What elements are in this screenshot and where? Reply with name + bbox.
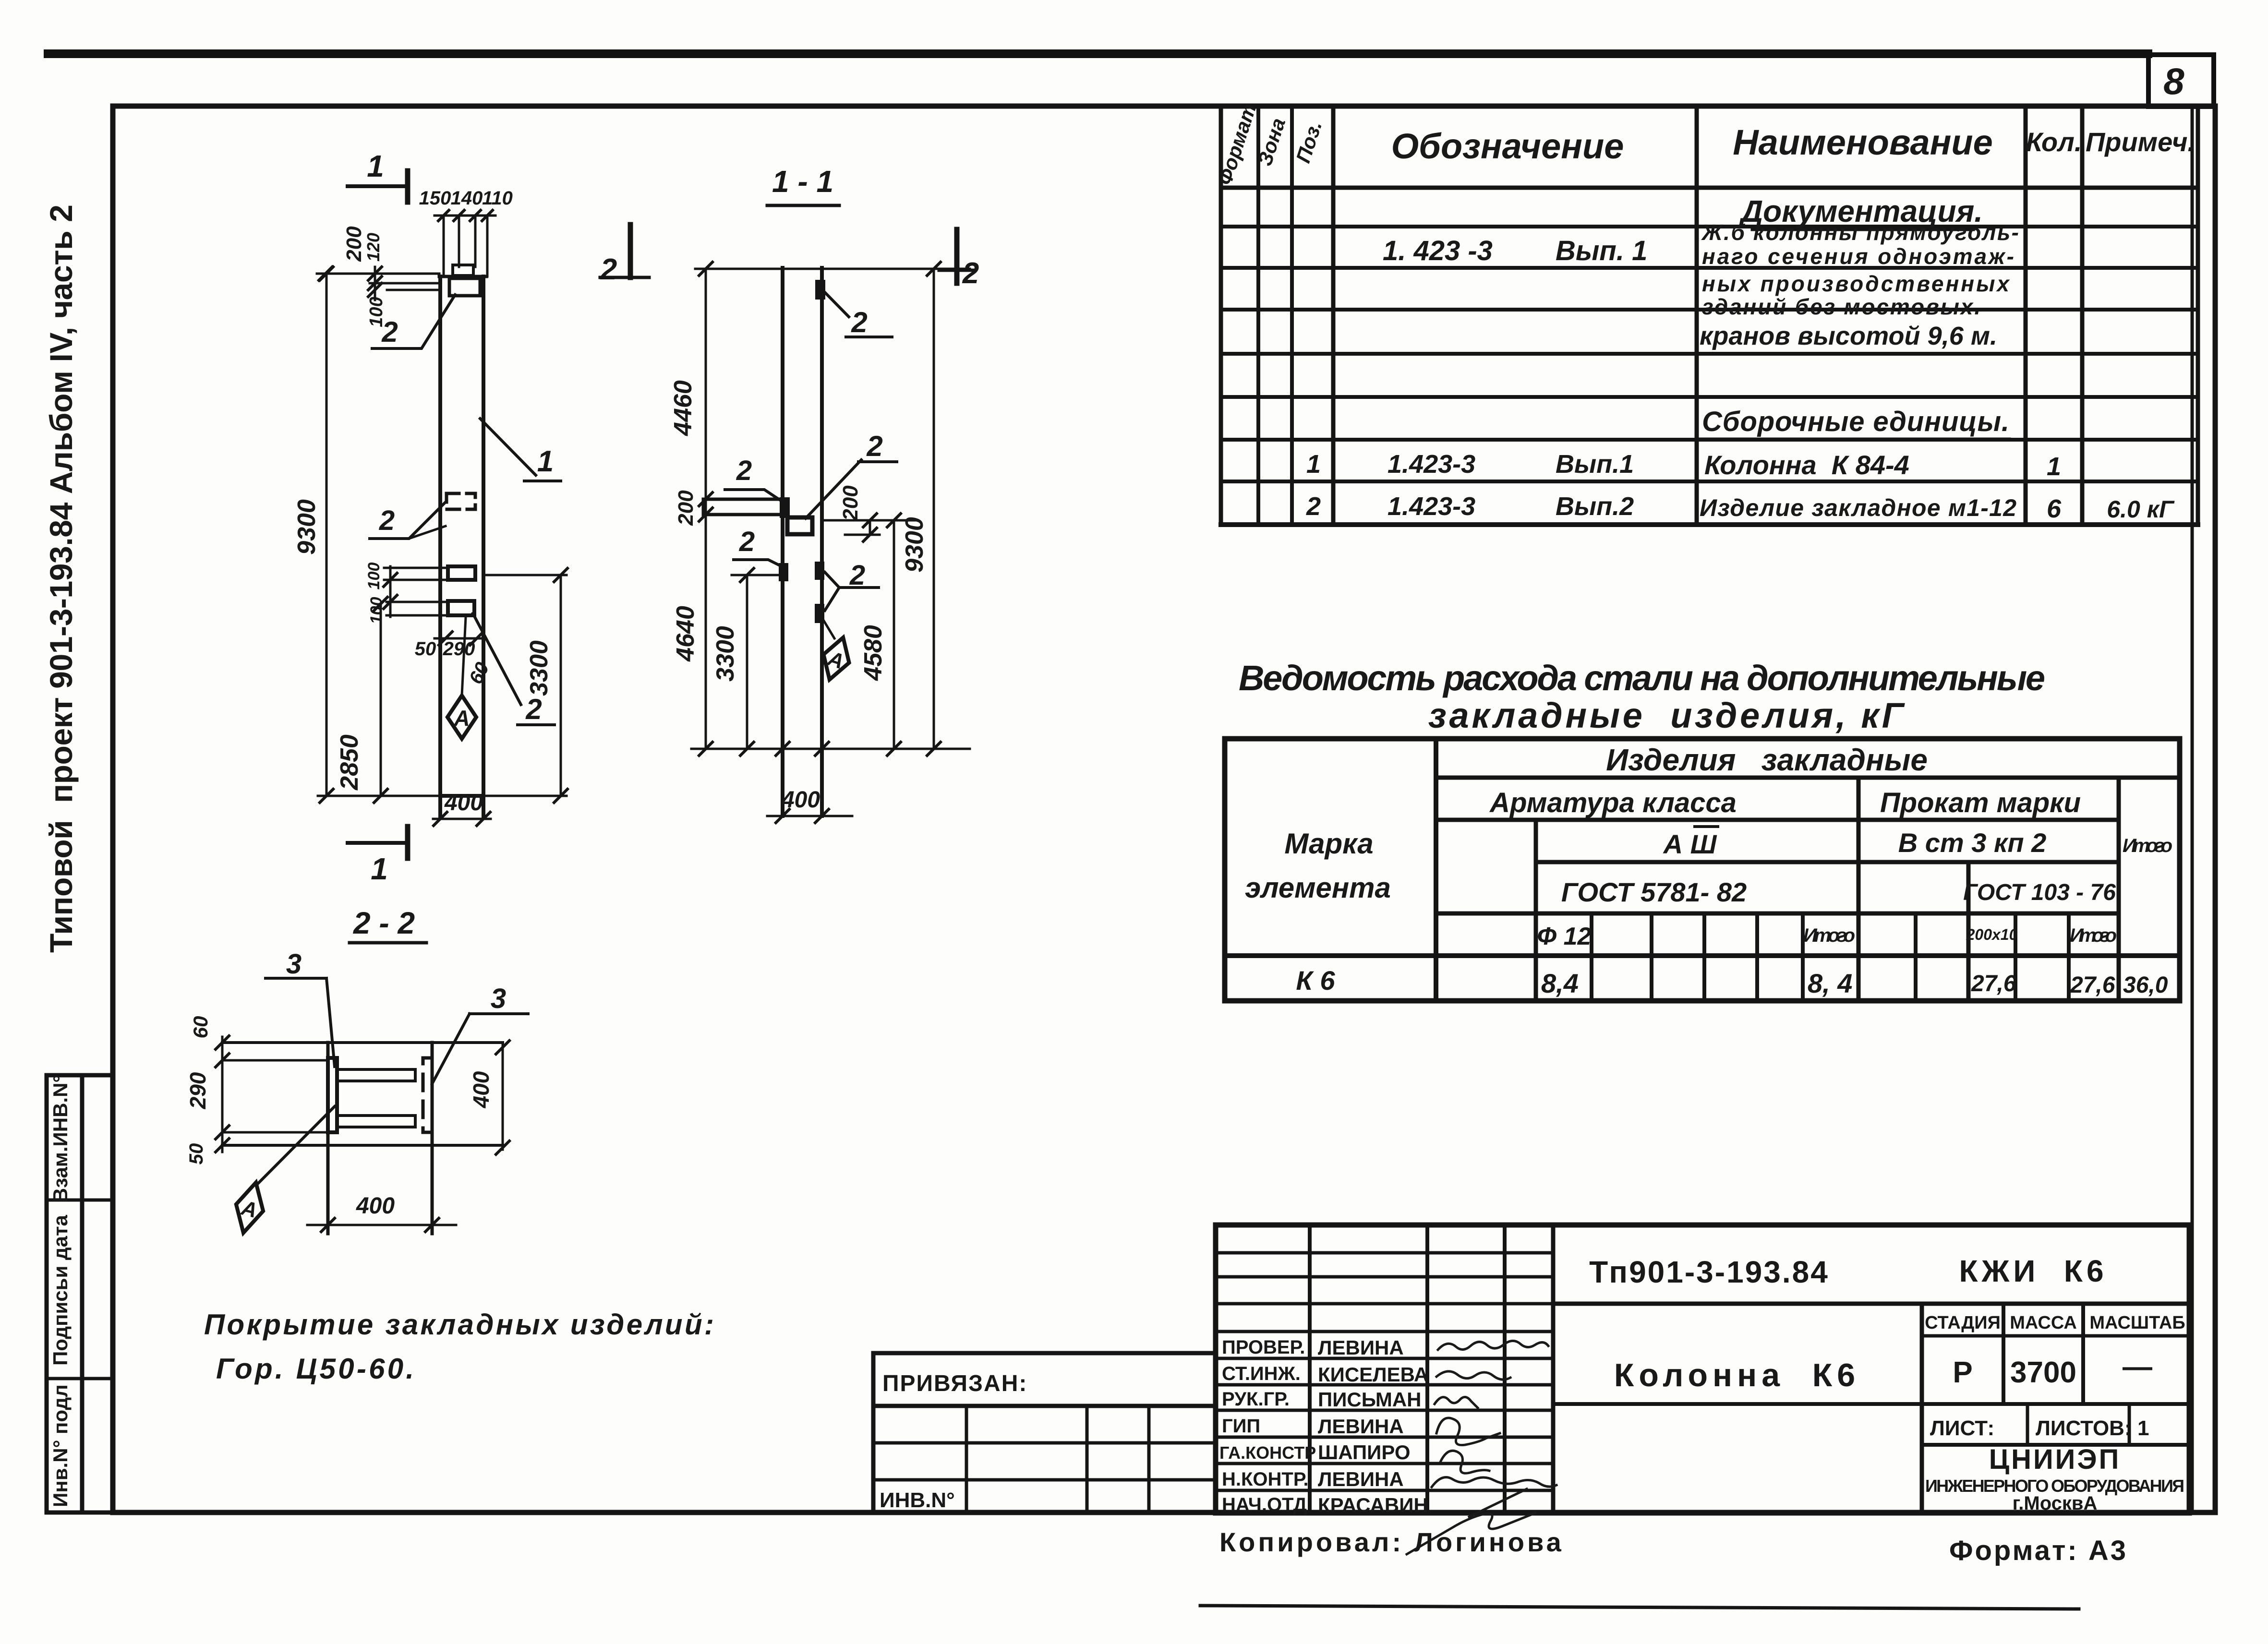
spec header kol xyxy=(2026,127,2082,157)
svg-text:1: 1 xyxy=(1306,450,1321,479)
diamond A 2-2 xyxy=(230,1179,269,1236)
svg-text:6: 6 xyxy=(2047,494,2062,523)
spec doc name multiline xyxy=(1700,220,2019,350)
label 2 for top plate xyxy=(824,292,892,338)
svg-text:6.0 кГ: 6.0 кГ xyxy=(2107,496,2175,523)
svg-text:9300: 9300 xyxy=(901,517,929,573)
svg-text:2850: 2850 xyxy=(336,734,363,791)
spec header format xyxy=(1213,101,1261,188)
svg-text:зданий без мостовых.: зданий без мостовых. xyxy=(1702,294,1980,319)
view title 2-2 xyxy=(350,906,426,943)
svg-text:2: 2 xyxy=(379,505,395,536)
svg-text:1: 1 xyxy=(537,445,554,478)
svg-text:кранов высотой 9,6 м.: кранов высотой 9,6 м. xyxy=(1700,322,1997,350)
right dim 400 xyxy=(469,1041,509,1154)
svg-text:РУК.ГР.: РУК.ГР. xyxy=(1222,1389,1290,1410)
svg-text:3: 3 xyxy=(491,983,506,1014)
svg-text:3700: 3700 xyxy=(2010,1356,2076,1389)
embed channel anchors xyxy=(337,1069,415,1127)
diamond A view1 xyxy=(447,617,476,739)
bottom dim 400 2-2 xyxy=(307,1193,456,1232)
svg-text:36,0: 36,0 xyxy=(2123,972,2168,998)
embed plate top plan view xyxy=(453,265,473,276)
svg-text:8, 4: 8, 4 xyxy=(1808,968,1852,998)
svg-text:ПРИВЯЗАН:: ПРИВЯЗАН: xyxy=(882,1371,1027,1396)
svg-text:Подписьи дата: Подписьи дата xyxy=(49,1214,72,1365)
note pokrytie line1 xyxy=(204,1308,715,1341)
title block mark KZHI K6 xyxy=(1959,1254,2107,1288)
svg-text:8: 8 xyxy=(2163,60,2184,102)
diamond A 1-1 xyxy=(817,634,856,684)
plate top extension line xyxy=(222,1060,328,1132)
svg-text:1 - 1: 1 - 1 xyxy=(772,164,833,199)
title block grid right part xyxy=(1553,1304,2189,1513)
svg-text:200: 200 xyxy=(342,226,366,262)
middle dashed embed plate xyxy=(446,493,475,509)
title block doc number xyxy=(1589,1255,1829,1289)
svg-text:200: 200 xyxy=(839,485,862,521)
svg-text:200: 200 xyxy=(674,490,698,526)
column body 1-1 xyxy=(783,268,822,816)
dim 3300 view1 xyxy=(483,568,567,803)
embed plate edge lower left xyxy=(779,563,788,581)
steel data itogo 8,4 xyxy=(1808,968,1852,998)
embed plates edge lower right xyxy=(815,562,824,623)
top left small dims 200 120 xyxy=(317,226,439,297)
spec row 2 izdelie zakladnoe xyxy=(1306,492,2175,523)
svg-text:Примеч.: Примеч. xyxy=(2086,127,2195,157)
drawing frame xyxy=(113,106,2215,1512)
svg-text:50: 50 xyxy=(186,1143,207,1165)
steel header armatura klassa xyxy=(1489,787,1737,818)
svg-text:НАЧ.ОТД: НАЧ.ОТД xyxy=(1222,1494,1307,1515)
svg-text:2: 2 xyxy=(381,316,398,348)
dim 4580 1-1 xyxy=(859,514,901,756)
view title 1-1 xyxy=(767,164,839,205)
lower embed plate a xyxy=(448,566,475,580)
svg-text:А Ш: А Ш xyxy=(1663,829,1717,859)
side stamp boxes xyxy=(47,1075,113,1512)
column body view1 xyxy=(318,276,486,817)
spec section dokumentacija xyxy=(1738,194,1983,229)
top dim line xyxy=(434,210,495,276)
specification table grid xyxy=(1221,106,2198,525)
svg-text:100: 100 xyxy=(365,563,383,590)
svg-text:Колонна К6: Колонна К6 xyxy=(1614,1357,1860,1393)
dim 400 1-1 xyxy=(767,787,852,823)
svg-text:Итого: Итого xyxy=(2123,835,2172,856)
svg-text:1: 1 xyxy=(2137,1416,2149,1440)
dim 2850 xyxy=(336,597,387,803)
svg-text:290: 290 xyxy=(185,1072,210,1109)
spec header zona xyxy=(1253,115,1290,168)
svg-text:ЛЕВИНА: ЛЕВИНА xyxy=(1318,1468,1404,1490)
svg-text:ЦНИИЭП: ЦНИИЭП xyxy=(1989,1444,2121,1475)
svg-text:Типовой проект 901-3-193.84 А: Типовой проект 901-3-193.84 Альбом IV, ч… xyxy=(43,204,79,953)
section mark 1 bottom xyxy=(348,827,408,886)
svg-text:элемента: элемента xyxy=(1245,872,1391,904)
label 3 right xyxy=(432,983,528,1084)
steel data 8,4 xyxy=(1541,968,1579,998)
inv number grid xyxy=(873,1406,1216,1513)
spec header naimenovanie xyxy=(1733,122,1993,162)
inner right margin line xyxy=(2191,106,2194,1512)
svg-text:1.423-3: 1.423-3 xyxy=(1387,450,1475,479)
svg-text:ШАПИРО: ШАПИРО xyxy=(1318,1441,1411,1464)
svg-text:1: 1 xyxy=(2047,452,2061,481)
embed plate 2 top front view xyxy=(449,278,480,296)
lower embed plate b xyxy=(448,601,474,615)
section square 2-2 xyxy=(222,1043,503,1234)
svg-text:4580: 4580 xyxy=(859,625,887,681)
svg-text:Гор. Ц50-60.: Гор. Ц50-60. xyxy=(216,1353,415,1385)
spec header oboznachenie xyxy=(1391,126,1624,166)
svg-text:Кол.: Кол. xyxy=(2026,127,2082,157)
top dim line 1-1 xyxy=(695,262,970,276)
svg-text:1: 1 xyxy=(367,149,384,183)
svg-text:Обозначение: Обозначение xyxy=(1391,126,1624,166)
svg-text:Ф 12: Ф 12 xyxy=(1537,923,1592,950)
bottom dim line 1-1 xyxy=(691,742,970,756)
svg-text:140: 140 xyxy=(451,188,483,209)
steel header f12 xyxy=(1537,923,1592,950)
svg-text:МАССА: МАССА xyxy=(2010,1313,2077,1333)
svg-text:Сборочные единицы.: Сборочные единицы. xyxy=(1702,406,2009,437)
svg-text:27,6: 27,6 xyxy=(2070,972,2115,998)
small dim 100 top xyxy=(366,267,386,327)
svg-text:Ведомость расхода стали на доп: Ведомость расхода стали на дополнительны… xyxy=(1239,658,2045,698)
svg-text:Итого: Итого xyxy=(1803,925,1855,946)
title block outer xyxy=(1216,1225,2189,1513)
svg-text:—: — xyxy=(2123,1350,2152,1383)
long embed plate left 1-1 xyxy=(703,497,790,518)
svg-text:ЛЕВИНА: ЛЕВИНА xyxy=(1318,1415,1404,1438)
steel table grid xyxy=(1225,739,2180,1001)
svg-text:4460: 4460 xyxy=(669,380,697,436)
svg-text:Изделие закладное м1-12: Изделие закладное м1-12 xyxy=(1700,494,2016,521)
svg-text:МАСШТАБ: МАСШТАБ xyxy=(2089,1313,2185,1333)
spec section sborochnye edinicy xyxy=(1700,406,2009,439)
signatures squiggles xyxy=(1407,1341,1556,1554)
dims 50 290 60 xyxy=(415,632,494,687)
dim 400 view1 bottom xyxy=(433,790,491,826)
svg-text:4640: 4640 xyxy=(672,606,700,662)
svg-text:8,4: 8,4 xyxy=(1541,968,1579,998)
svg-text:110: 110 xyxy=(482,188,513,209)
spec row 1 kolonna xyxy=(1306,450,2061,481)
embed channel right plate dashed xyxy=(423,1058,432,1132)
left dim 60 290 50 xyxy=(185,1016,229,1165)
svg-text:Формат: А3: Формат: А3 xyxy=(1949,1535,2128,1566)
svg-text:закладные изделия, кГ: закладные изделия, кГ xyxy=(1428,696,1906,735)
svg-text:КИСЕЛЕВА: КИСЕЛЕВА xyxy=(1318,1363,1428,1386)
svg-text:Вып.2: Вып.2 xyxy=(1556,492,1634,521)
dim 200 right 1-1 xyxy=(822,485,915,541)
svg-text:Р: Р xyxy=(1953,1356,1972,1389)
side stamp text: project name xyxy=(43,204,79,953)
leader mark 1 on column xyxy=(480,419,561,481)
section mark 1 top xyxy=(348,149,408,202)
embed channel left plate xyxy=(328,1058,337,1132)
svg-text:3300: 3300 xyxy=(712,626,739,682)
svg-text:1.423-3: 1.423-3 xyxy=(1387,492,1475,521)
label 2 center plate xyxy=(806,430,897,518)
bottom fold line xyxy=(1200,1606,2079,1609)
svg-text:Итого: Итого xyxy=(2070,925,2117,946)
svg-text:СТ.ИНЖ.: СТ.ИНЖ. xyxy=(1222,1363,1301,1384)
svg-text:КРАСАВИН: КРАСАВИН xyxy=(1318,1494,1428,1516)
svg-text:Колонна К 84-4: Колонна К 84-4 xyxy=(1704,450,1909,480)
svg-text:2: 2 xyxy=(849,560,865,591)
side stamp label podpis data xyxy=(49,1214,72,1365)
spec header poz xyxy=(1291,118,1326,166)
svg-text:50: 50 xyxy=(415,638,436,660)
signature rows labels xyxy=(1219,1337,1316,1515)
section mark 2 right xyxy=(939,229,979,290)
svg-text:ПИСЬМАН: ПИСЬМАН xyxy=(1318,1388,1422,1411)
svg-text:3300: 3300 xyxy=(525,640,553,696)
steel header 200x10 xyxy=(1966,926,2018,943)
stadija massa masshtab headers xyxy=(1925,1313,2185,1333)
spec row doc designation xyxy=(1383,235,1647,266)
svg-text:наго сечения одноэтаж-: наго сечения одноэтаж- xyxy=(1702,244,2014,269)
sheet number box xyxy=(2148,55,2214,107)
svg-text:ЛИСТ:: ЛИСТ: xyxy=(1930,1416,1994,1440)
svg-text:2: 2 xyxy=(525,693,542,725)
svg-text:2: 2 xyxy=(600,253,617,286)
label 2 lower left xyxy=(734,526,782,566)
center embed plate 1-1 xyxy=(787,517,812,534)
svg-text:1: 1 xyxy=(371,852,388,886)
svg-text:А: А xyxy=(453,706,470,731)
svg-text:ЛИСТОВ:: ЛИСТОВ: xyxy=(2036,1416,2132,1440)
steel header itogo right xyxy=(2123,835,2172,856)
svg-text:ных производственных: ных производственных xyxy=(1702,271,2010,296)
svg-text:ПРОВЕР.: ПРОВЕР. xyxy=(1222,1337,1305,1358)
svg-text:2: 2 xyxy=(866,430,882,462)
label 3 left xyxy=(265,948,335,1067)
steel table title line1 xyxy=(1239,658,2045,698)
svg-text:2: 2 xyxy=(962,257,979,290)
svg-text:Н.КОНТР.: Н.КОНТР. xyxy=(1222,1469,1309,1490)
svg-text:150: 150 xyxy=(419,188,451,209)
svg-text:Прокат марки: Прокат марки xyxy=(1880,787,2081,818)
svg-text:400: 400 xyxy=(469,1071,494,1108)
svg-text:27,6: 27,6 xyxy=(1971,971,2016,996)
svg-text:2: 2 xyxy=(1306,492,1321,521)
svg-text:ГОСТ 103 - 76: ГОСТ 103 - 76 xyxy=(1963,880,2116,905)
svg-text:Вып.1: Вып.1 xyxy=(1556,450,1634,479)
svg-text:400: 400 xyxy=(444,790,483,816)
organization cniiep xyxy=(1925,1444,2184,1514)
svg-text:Поз.: Поз. xyxy=(1291,118,1326,166)
dim 9300 view1 xyxy=(293,267,333,803)
svg-text:200x10: 200x10 xyxy=(1966,926,2018,943)
steel header gost 5781 xyxy=(1561,877,1747,907)
svg-text:Ж.б колонны прямоуголь-: Ж.б колонны прямоуголь- xyxy=(1701,220,2019,245)
svg-text:Арматура класса: Арматура класса xyxy=(1489,787,1737,818)
svg-text:9300: 9300 xyxy=(293,499,321,555)
svg-text:ГА.КОНСТР: ГА.КОНСТР xyxy=(1219,1443,1316,1463)
svg-text:Марка: Марка xyxy=(1284,828,1373,860)
section mark 2 left xyxy=(600,225,649,286)
steel header marka elementa xyxy=(1245,828,1391,904)
side stamp label inv podl xyxy=(49,1384,72,1507)
leader to label 2 top xyxy=(372,295,455,348)
dim 3300 1-1 xyxy=(712,568,785,756)
label 2 long plate xyxy=(725,455,782,501)
steel table title line2 xyxy=(1428,696,1906,735)
svg-text:ГИП: ГИП xyxy=(1222,1416,1260,1437)
steel header itogo arm xyxy=(1803,925,1855,946)
svg-text:Тп901-3-193.84: Тп901-3-193.84 xyxy=(1589,1255,1829,1289)
stadija massa masshtab values xyxy=(1953,1350,2152,1389)
top border bar xyxy=(48,49,2148,58)
svg-text:Наименование: Наименование xyxy=(1733,122,1993,162)
diamond A leader 1-1 xyxy=(823,619,834,638)
label 2 middle xyxy=(370,502,446,539)
steel header Vst3kp2 xyxy=(1898,828,2047,858)
svg-text:2: 2 xyxy=(736,455,752,486)
steel header prokat marki xyxy=(1880,787,2081,818)
svg-text:Инв.N° подл: Инв.N° подл xyxy=(49,1384,72,1507)
diamond A leader 2-2 xyxy=(257,1106,335,1185)
svg-text:К 6: К 6 xyxy=(1296,965,1335,996)
left dim line 4460 200 4640 xyxy=(669,269,712,756)
embed plate edge top right xyxy=(815,280,825,300)
svg-text:ЛЕВИНА: ЛЕВИНА xyxy=(1318,1336,1404,1359)
kopiroval text xyxy=(1219,1527,1564,1557)
format A3 text xyxy=(1949,1535,2128,1566)
steel data total 36,0 xyxy=(2123,972,2168,998)
svg-text:120: 120 xyxy=(363,233,383,262)
svg-text:Копировал: Логинова: Копировал: Логинова xyxy=(1219,1527,1564,1557)
leader 2 bottom right xyxy=(473,613,555,725)
svg-text:400: 400 xyxy=(781,787,820,813)
sheet number 8 xyxy=(2163,60,2184,102)
svg-text:г.МосквА: г.МосквА xyxy=(2013,1493,2098,1514)
svg-text:60: 60 xyxy=(465,659,494,687)
steel header itogo prokat xyxy=(2070,925,2117,946)
steel header gost 103 xyxy=(1963,880,2116,905)
svg-text:2: 2 xyxy=(851,306,867,338)
note pokrytie line2 xyxy=(216,1353,415,1385)
svg-text:В ст 3 кп 2: В ст 3 кп 2 xyxy=(1898,828,2047,858)
dims 100 100 lower xyxy=(365,563,448,624)
steel header AIII xyxy=(1663,827,1718,859)
label 2 lower right bracket xyxy=(825,560,879,611)
list listov row xyxy=(1930,1416,2149,1440)
svg-text:290: 290 xyxy=(443,638,475,660)
svg-text:Вып. 1: Вып. 1 xyxy=(1556,235,1647,266)
svg-text:3: 3 xyxy=(286,948,302,980)
svg-text:Изделия закладные: Изделия закладные xyxy=(1606,743,1928,777)
svg-text:СТАДИЯ: СТАДИЯ xyxy=(1925,1313,2001,1333)
side stamp label vzam inv xyxy=(49,1075,72,1202)
svg-text:400: 400 xyxy=(356,1193,395,1219)
dim labels 150 140 110 xyxy=(419,188,513,209)
svg-text:ГОСТ 5781- 82: ГОСТ 5781- 82 xyxy=(1561,877,1747,907)
steel data itogo 27,6 xyxy=(2070,972,2115,998)
signature rows names xyxy=(1318,1336,1428,1516)
privjazan box xyxy=(873,1353,1216,1406)
steel data K6 xyxy=(1296,965,1335,996)
title block grid left part xyxy=(1216,1225,1553,1513)
svg-text:Взам.ИНВ.N°: Взам.ИНВ.N° xyxy=(49,1075,72,1202)
svg-text:2 - 2: 2 - 2 xyxy=(353,906,415,940)
dim 9300 1-1 xyxy=(901,269,941,756)
steel data 27,6 xyxy=(1971,971,2016,996)
svg-text:КЖИ К6: КЖИ К6 xyxy=(1959,1254,2107,1288)
svg-text:ИНВ.N°: ИНВ.N° xyxy=(880,1488,955,1512)
svg-text:1. 423 -3: 1. 423 -3 xyxy=(1383,235,1493,266)
title block name kolonna K6 xyxy=(1614,1357,1860,1393)
svg-text:2: 2 xyxy=(739,526,755,557)
steel header izdelija zakladnye xyxy=(1606,743,1928,777)
spec header primech xyxy=(2086,127,2195,157)
svg-text:Покрытие закладных изделий:: Покрытие закладных изделий: xyxy=(204,1308,715,1341)
svg-text:60: 60 xyxy=(189,1016,212,1039)
